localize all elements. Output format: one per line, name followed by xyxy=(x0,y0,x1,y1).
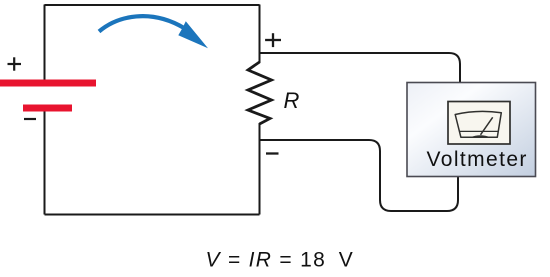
svg-text:R: R xyxy=(284,88,300,113)
svg-text:Voltmeter: Voltmeter xyxy=(427,148,528,171)
svg-text:V = IR = 18 V: V = IR = 18 V xyxy=(206,249,355,272)
